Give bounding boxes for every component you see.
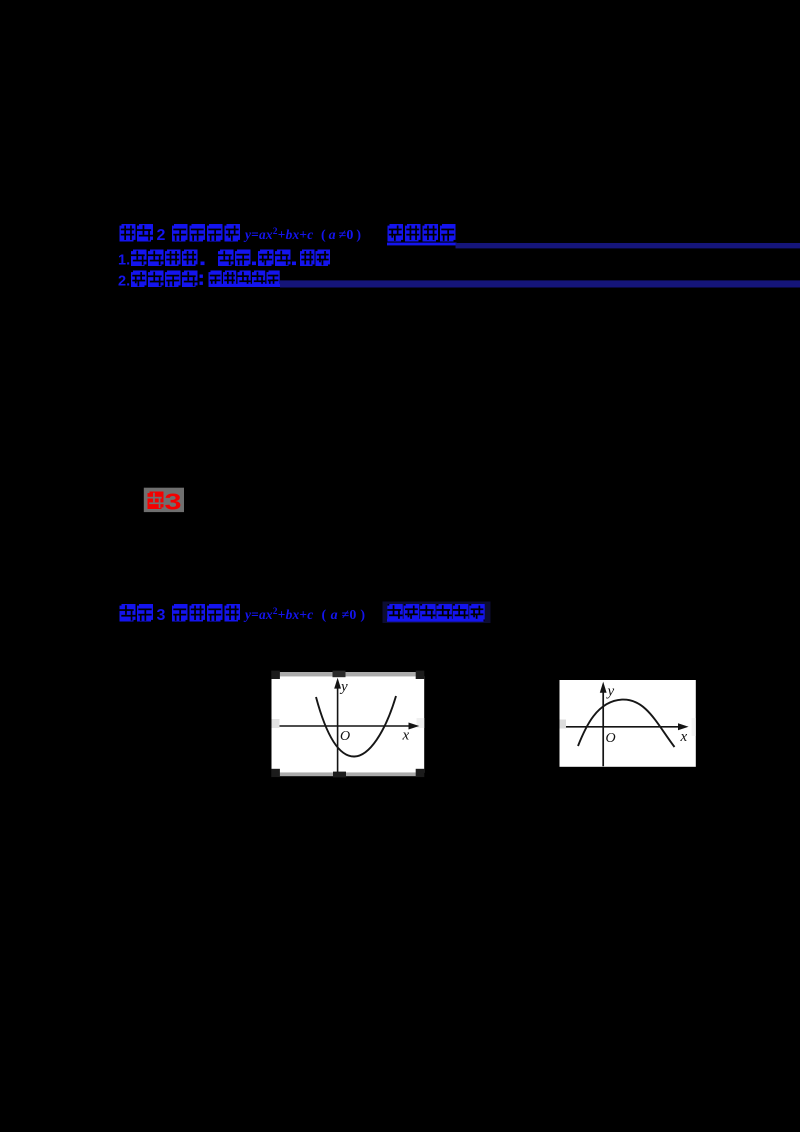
list item 2 group 1	[131, 271, 147, 288]
svg-text:3: 3	[157, 607, 166, 624]
heading line 1: trailing 图象性质 blobs	[388, 224, 404, 242]
svg-text:3: 3	[165, 489, 182, 515]
svg-text:y=ax2+bx+c: y=ax2+bx+c	[243, 607, 313, 622]
graph 2 downward parabola	[578, 700, 675, 747]
graph 2 x-axis	[566, 726, 681, 728]
list item 2 group 2 underlined	[209, 271, 222, 287]
heading line 2 underline	[387, 619, 484, 622]
svg-text:O: O	[340, 729, 350, 744]
example label 例 blob	[148, 492, 164, 510]
svg-text:2: 2	[157, 227, 166, 244]
graph 2 y-axis	[602, 690, 604, 766]
heading line 1: 考点2	[120, 224, 136, 242]
graph 1 y-axis	[337, 686, 339, 773]
heading line 1 navy bar to right edge	[456, 243, 800, 248]
graph box 1 white panel	[272, 676, 425, 773]
graph box 1 handles	[271, 671, 280, 679]
graph box 2 edge smudges	[560, 720, 567, 729]
graph 1 x-axis	[280, 725, 413, 727]
list item 1 group 2	[218, 250, 234, 267]
heading line 1 underline	[387, 243, 457, 246]
heading line 2: 二次函数	[172, 604, 188, 622]
list item 1 group 4	[300, 250, 315, 267]
heading line 1: 二次函数	[172, 224, 188, 242]
graph box 1 selection bottom bar	[272, 773, 424, 776]
graph box 1 selection top bar	[272, 672, 424, 676]
heading line 2: 考点3	[120, 604, 136, 622]
graph 1 upward parabola	[316, 696, 396, 757]
list item 1 group 1	[131, 250, 147, 267]
graph box 2 white panel	[560, 680, 696, 767]
svg-text:x: x	[402, 728, 410, 744]
svg-text:y: y	[339, 679, 348, 695]
list item 2 navy bar to right edge	[280, 280, 800, 287]
example label gray box	[144, 488, 184, 512]
svg-text:x: x	[680, 729, 688, 745]
svg-text:1.: 1.	[118, 253, 130, 269]
svg-text:2.: 2.	[118, 274, 130, 290]
svg-text:O: O	[606, 731, 616, 746]
heading line 2: trailing blobs	[387, 604, 402, 621]
heading line 2 halo	[383, 602, 491, 624]
svg-text:y: y	[606, 684, 615, 700]
list item 2 underline	[209, 284, 281, 287]
list item 1 group 3	[258, 250, 274, 267]
svg-text:y=ax2+bx+c: y=ax2+bx+c	[243, 227, 313, 242]
